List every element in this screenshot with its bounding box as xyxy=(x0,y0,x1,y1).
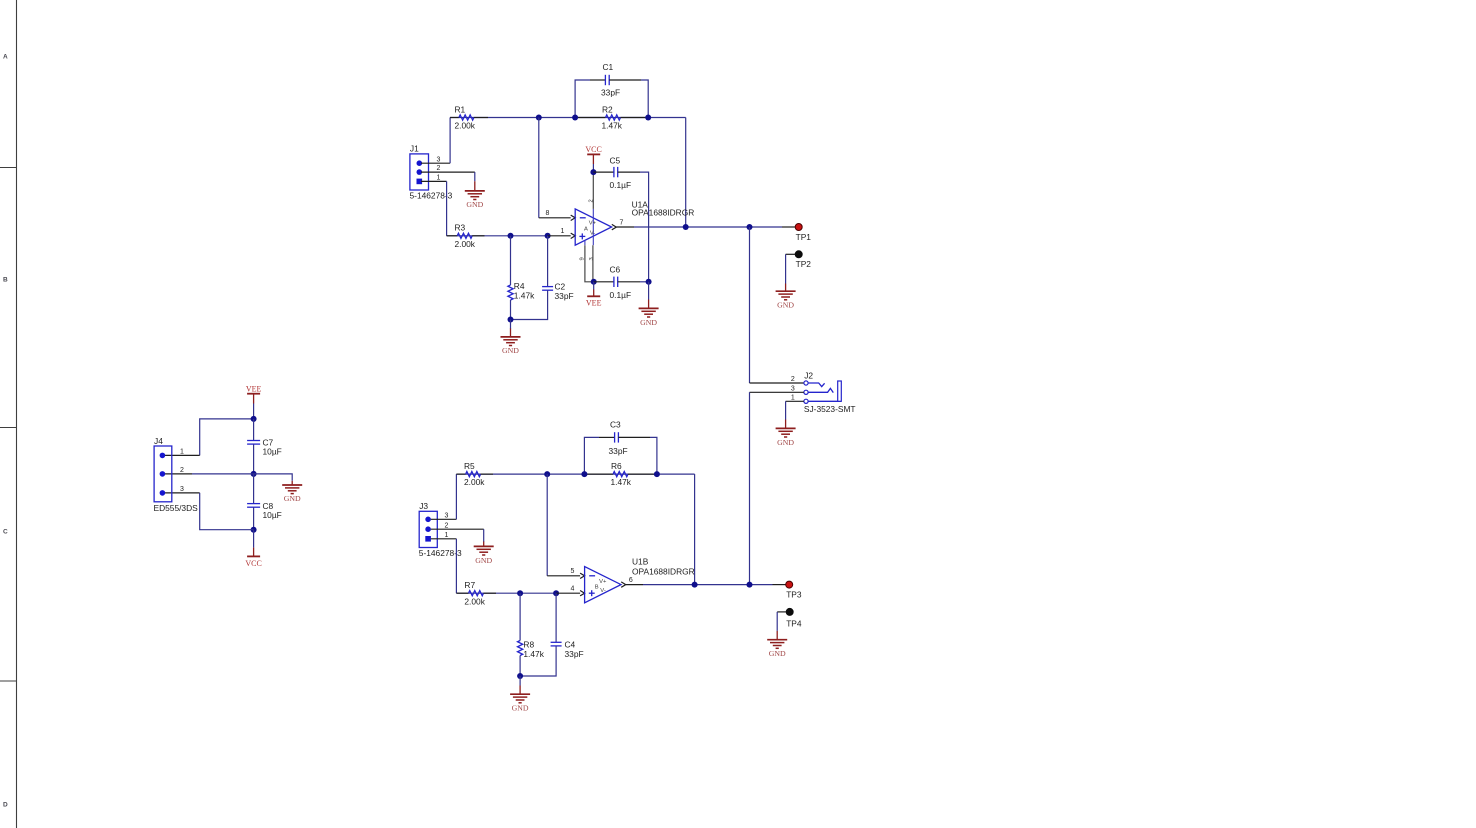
connector J1 xyxy=(410,154,429,190)
wire J1 pin3 up to R1 xyxy=(449,118,451,164)
svg-text:GND: GND xyxy=(475,556,492,565)
wire TP2 to ground xyxy=(785,254,787,283)
svg-text:33pF: 33pF xyxy=(601,88,620,98)
sheet border vertical line xyxy=(16,0,18,828)
TP3 lead xyxy=(773,584,786,586)
ground at mid node xyxy=(282,481,302,494)
resistor R3 xyxy=(447,233,485,238)
ground below R4 xyxy=(501,329,521,346)
svg-text:C6: C6 xyxy=(610,265,621,275)
J2 pin 2 terminal xyxy=(804,381,808,385)
J3 pin 1 lead xyxy=(431,538,457,540)
junction R7/C4 xyxy=(553,590,559,596)
TP4 lead xyxy=(777,611,786,613)
svg-text:OPA1688IDRGR: OPA1688IDRGR xyxy=(632,566,695,576)
wire C2 branch lower xyxy=(511,290,548,319)
op-amp U1A xyxy=(575,209,611,245)
wire to ground below R8 xyxy=(519,676,521,686)
svg-text:5: 5 xyxy=(571,568,575,575)
J2 sleeve wire xyxy=(808,400,841,402)
svg-text:VEE: VEE xyxy=(586,299,602,308)
svg-text:2.00k: 2.00k xyxy=(455,121,476,131)
junction R5 row / pin5 branch xyxy=(544,471,550,477)
wire C6 right to rail xyxy=(640,281,649,283)
wire TP4 to ground xyxy=(776,612,778,631)
svg-text:1.47k: 1.47k xyxy=(602,121,623,131)
svg-text:A: A xyxy=(584,227,588,233)
svg-text:2.00k: 2.00k xyxy=(464,596,485,606)
svg-text:C5: C5 xyxy=(610,156,621,166)
junction output/J2 branch xyxy=(747,224,753,230)
svg-text:1.47k: 1.47k xyxy=(611,477,632,487)
junction C1 left xyxy=(572,115,578,121)
J1 pin 1 lead xyxy=(421,180,447,182)
J4 pin 2 lead xyxy=(165,473,192,475)
svg-text:GND: GND xyxy=(769,649,786,658)
junction R4/C2 bottom xyxy=(508,317,514,323)
svg-text:1: 1 xyxy=(791,395,795,402)
U1B pin 5 lead xyxy=(547,575,580,577)
capacitor C3 xyxy=(599,432,650,442)
U1A pin 8 arrowhead xyxy=(571,215,576,220)
svg-text:6: 6 xyxy=(629,577,633,584)
sheet border tick 1 xyxy=(0,167,17,169)
svg-text:TP1: TP1 xyxy=(796,232,812,242)
wire inverting input net R1 row xyxy=(450,117,686,119)
test point TP2 xyxy=(795,251,802,258)
svg-text:GND: GND xyxy=(466,200,483,209)
svg-text:2: 2 xyxy=(437,165,441,172)
TP2 lead xyxy=(786,253,796,255)
wire J3 pin3 up to R5 xyxy=(455,474,457,519)
svg-text:VCC: VCC xyxy=(585,145,601,154)
capacitor C8 xyxy=(247,504,260,508)
svg-text:B: B xyxy=(595,585,599,591)
wire C5 right to C6/GND rail xyxy=(640,172,649,282)
J1 pin 2 lead xyxy=(421,171,475,173)
wire mid node down to C8 xyxy=(253,474,255,504)
svg-text:B: B xyxy=(3,277,8,284)
svg-text:2: 2 xyxy=(180,467,184,474)
wire output down to J2 tip xyxy=(749,227,751,383)
svg-text:V-: V- xyxy=(590,230,596,236)
wire to U1B pin 5 xyxy=(546,474,548,576)
wire noninverting input net R7 row xyxy=(456,592,556,594)
svg-text:7: 7 xyxy=(620,220,624,227)
svg-text:R3: R3 xyxy=(455,223,466,233)
test point TP1 xyxy=(795,224,802,231)
wire VEE node to J4 pin1 xyxy=(200,419,254,456)
svg-text:33pF: 33pF xyxy=(565,649,584,659)
svg-text:5-146278-3: 5-146278-3 xyxy=(419,548,462,558)
wire J2 pin1 to ground xyxy=(785,401,787,419)
svg-text:R5: R5 xyxy=(464,461,475,471)
svg-text:C: C xyxy=(3,529,8,536)
J2 sleeve bar xyxy=(838,381,842,401)
svg-text:V-: V- xyxy=(600,588,606,594)
svg-text:R7: R7 xyxy=(464,580,475,590)
resistor R1 xyxy=(450,115,488,120)
svg-text:SJ-3523-SMT: SJ-3523-SMT xyxy=(804,404,856,414)
svg-text:0.1µF: 0.1µF xyxy=(610,290,632,300)
svg-text:J1: J1 xyxy=(410,143,419,153)
svg-text:3: 3 xyxy=(445,512,449,519)
wire C1 right leg xyxy=(641,80,648,118)
TP1 lead xyxy=(782,226,795,228)
svg-text:U1B: U1B xyxy=(632,557,649,567)
U1A output pin 7 arrowhead xyxy=(612,224,617,229)
J2 pin 1 terminal xyxy=(804,399,808,403)
capacitor C5 xyxy=(593,167,640,177)
J2 tip contact xyxy=(808,383,825,387)
J4 pin 3 lead xyxy=(165,492,200,494)
svg-text:J2: J2 xyxy=(804,370,813,380)
power flag VEE xyxy=(587,282,600,297)
wire C1 left leg xyxy=(575,80,590,118)
svg-text:C3: C3 xyxy=(610,420,621,430)
svg-text:C1: C1 xyxy=(603,62,614,72)
svg-text:8: 8 xyxy=(546,210,550,217)
test point TP3 xyxy=(786,581,793,588)
resistor R5 xyxy=(456,472,493,477)
junction V- / C6 xyxy=(591,279,597,285)
svg-text:VEE: VEE xyxy=(246,384,262,393)
wire VEE flag to node xyxy=(253,404,255,419)
junction C3 right xyxy=(654,471,660,477)
junction mid node xyxy=(251,471,257,477)
svg-text:1.47k: 1.47k xyxy=(514,291,535,301)
capacitor C6 xyxy=(594,277,640,287)
U1A V- pin leads xyxy=(585,245,594,282)
svg-text:1.47k: 1.47k xyxy=(523,649,544,659)
svg-text:R6: R6 xyxy=(611,461,622,471)
svg-text:10µF: 10µF xyxy=(263,510,282,520)
wire noninverting input net R3 row xyxy=(447,235,548,237)
resistor R4 xyxy=(508,285,513,300)
J4 pin 1 lead xyxy=(165,454,200,456)
J2 pin 3 lead xyxy=(750,391,804,393)
svg-text:1: 1 xyxy=(180,449,184,456)
junction VCC node xyxy=(251,527,257,533)
svg-text:33pF: 33pF xyxy=(609,446,628,456)
sheet border tick 2 xyxy=(0,427,17,429)
capacitor C1 xyxy=(590,75,641,85)
wire to U1A pin 8 xyxy=(538,118,540,218)
junction output/feedback xyxy=(683,224,689,230)
capacitor C2 xyxy=(542,287,553,291)
svg-text:0.1µF: 0.1µF xyxy=(610,180,632,190)
svg-text:2.00k: 2.00k xyxy=(455,239,476,249)
op-amp U1B xyxy=(585,567,621,603)
U1A pin 1 arrowhead xyxy=(571,233,576,238)
J2 ring contact xyxy=(808,388,833,392)
svg-text:J3: J3 xyxy=(419,501,428,511)
svg-text:2: 2 xyxy=(791,376,795,383)
U1B pin 5 arrowhead xyxy=(580,573,585,578)
capacitor C4 xyxy=(551,642,562,646)
U1B output pin 6 arrowhead xyxy=(621,582,626,587)
svg-text:ED555/3DS: ED555/3DS xyxy=(154,503,199,513)
wire J3 pin1 down to R7 xyxy=(455,539,457,593)
wire C8 to VCC node xyxy=(253,507,255,529)
junction VEE/C7 xyxy=(251,416,257,422)
J2 pin 1 lead xyxy=(786,400,804,402)
wire R4 branch lower xyxy=(510,300,512,320)
wire C7 to mid node xyxy=(253,444,255,474)
svg-text:A: A xyxy=(3,54,8,61)
wire feedback down to U1B output xyxy=(694,474,696,584)
svg-text:GND: GND xyxy=(512,703,529,712)
svg-text:TP3: TP3 xyxy=(786,589,802,599)
wire output net to TP1 xyxy=(634,226,782,228)
svg-text:GND: GND xyxy=(284,494,301,503)
U1B pin 4 lead xyxy=(556,592,580,594)
resistor R8 xyxy=(518,641,523,656)
wire J4 pin2 to mid node xyxy=(192,473,254,475)
wire R8 branch lower xyxy=(519,656,521,677)
wire J1 pin2 down to ground xyxy=(474,172,476,181)
J1 pin 3 lead xyxy=(421,162,450,164)
wire C4 branch lower xyxy=(520,646,556,676)
ground below TP2 xyxy=(776,284,796,300)
svg-text:GND: GND xyxy=(777,300,794,309)
svg-text:GND: GND xyxy=(777,438,794,447)
wire C4 branch upper xyxy=(555,593,557,642)
svg-text:D: D xyxy=(3,802,8,809)
svg-text:9: 9 xyxy=(580,257,586,260)
svg-text:3: 3 xyxy=(437,156,441,163)
connector J3 xyxy=(419,511,437,547)
svg-text:VCC: VCC xyxy=(245,559,261,568)
junction VCC/C5 xyxy=(590,169,596,175)
U1B output pin 6 lead xyxy=(626,584,643,586)
wire U1B output up to J2 ring xyxy=(749,392,751,584)
svg-text:TP4: TP4 xyxy=(786,618,802,628)
connector J4 xyxy=(154,446,172,502)
junction R3/R4 xyxy=(508,233,514,239)
svg-text:GND: GND xyxy=(502,346,519,355)
U1A output pin 7 lead xyxy=(616,226,634,228)
svg-text:TP2: TP2 xyxy=(796,259,812,269)
U1B pin 4 arrowhead xyxy=(580,591,585,596)
ground below R8 xyxy=(510,686,530,703)
junction C6 right / rail xyxy=(646,279,652,285)
junction R8/C4 bottom xyxy=(517,673,523,679)
power flag VEE supply section xyxy=(247,394,260,404)
wire to ground below R4 xyxy=(510,320,512,330)
U1A V+ pin 2 lead xyxy=(592,172,594,209)
wire C6 rail to ground xyxy=(648,282,650,300)
wire J4 pin3 to VCC node xyxy=(200,493,254,530)
svg-text:2: 2 xyxy=(589,199,595,202)
wire C3 right leg xyxy=(650,437,657,474)
wire VCC to V+ node xyxy=(592,164,594,172)
junction R3/C2 xyxy=(545,233,551,239)
svg-text:10µF: 10µF xyxy=(263,447,282,457)
wire C3 left leg xyxy=(584,437,599,474)
wire R8 branch upper xyxy=(519,593,521,640)
J2 pin 3 terminal xyxy=(804,390,808,394)
svg-text:33pF: 33pF xyxy=(555,291,574,301)
resistor R2 xyxy=(575,115,648,120)
ground at J1 pin 2 xyxy=(465,181,485,199)
svg-text:OPA1688IDRGR: OPA1688IDRGR xyxy=(632,208,695,218)
ground at J3 pin 2 xyxy=(474,542,494,556)
wire mid node to ground xyxy=(254,474,293,481)
J2 pin 2 lead xyxy=(750,382,804,384)
test point TP4 xyxy=(786,608,793,615)
junction R7/R8 xyxy=(517,590,523,596)
svg-text:V+: V+ xyxy=(589,221,597,227)
svg-text:2.00k: 2.00k xyxy=(464,477,485,487)
svg-text:V+: V+ xyxy=(599,579,607,585)
svg-text:R1: R1 xyxy=(455,104,466,114)
wire U1B output net xyxy=(643,584,773,586)
ground below C6 xyxy=(639,300,659,318)
wire J1 pin1 down to R3 xyxy=(446,181,448,235)
svg-text:4: 4 xyxy=(571,586,575,593)
svg-text:GND: GND xyxy=(640,318,657,327)
junction C3 left xyxy=(581,471,587,477)
svg-text:3: 3 xyxy=(180,486,184,493)
resistor R6 xyxy=(584,472,657,477)
wire inverting input net R5 row xyxy=(456,473,694,475)
svg-text:1: 1 xyxy=(445,532,449,539)
junction U1B output/J2 branch xyxy=(747,582,753,588)
capacitor C7 xyxy=(247,441,260,445)
svg-text:1: 1 xyxy=(437,175,441,182)
junction C1 right xyxy=(645,115,651,121)
power flag VCC xyxy=(587,154,600,164)
wire VEE node down to C7 xyxy=(253,419,255,440)
svg-text:3: 3 xyxy=(791,386,795,393)
svg-text:R2: R2 xyxy=(602,104,613,114)
J3 pin 2 lead xyxy=(431,528,484,530)
wire J3 pin2 to ground xyxy=(483,529,485,542)
svg-text:1: 1 xyxy=(561,228,565,235)
ground below TP4 xyxy=(767,631,787,648)
wire R4 branch upper xyxy=(510,236,512,285)
svg-text:2: 2 xyxy=(445,522,449,529)
sheet border tick 3 xyxy=(0,680,17,682)
wire feedback down to output xyxy=(685,118,687,228)
junction U1B output/feedback xyxy=(692,582,698,588)
svg-text:J4: J4 xyxy=(154,436,163,446)
U1A pin 1 lead xyxy=(548,235,571,237)
svg-text:3: 3 xyxy=(589,257,595,260)
power flag VCC supply section xyxy=(247,530,260,557)
junction R1 row / pin8 branch xyxy=(536,115,542,121)
wire C2 branch upper xyxy=(547,236,549,287)
resistor R7 xyxy=(456,591,496,596)
ground below J2 xyxy=(776,420,796,438)
J3 pin 3 lead xyxy=(431,518,457,520)
U1A pin 8 lead xyxy=(539,217,571,219)
